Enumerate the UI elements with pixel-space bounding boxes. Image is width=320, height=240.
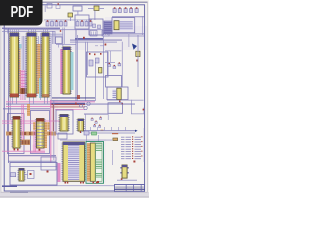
svg-text:PDF: PDF bbox=[11, 3, 34, 20]
